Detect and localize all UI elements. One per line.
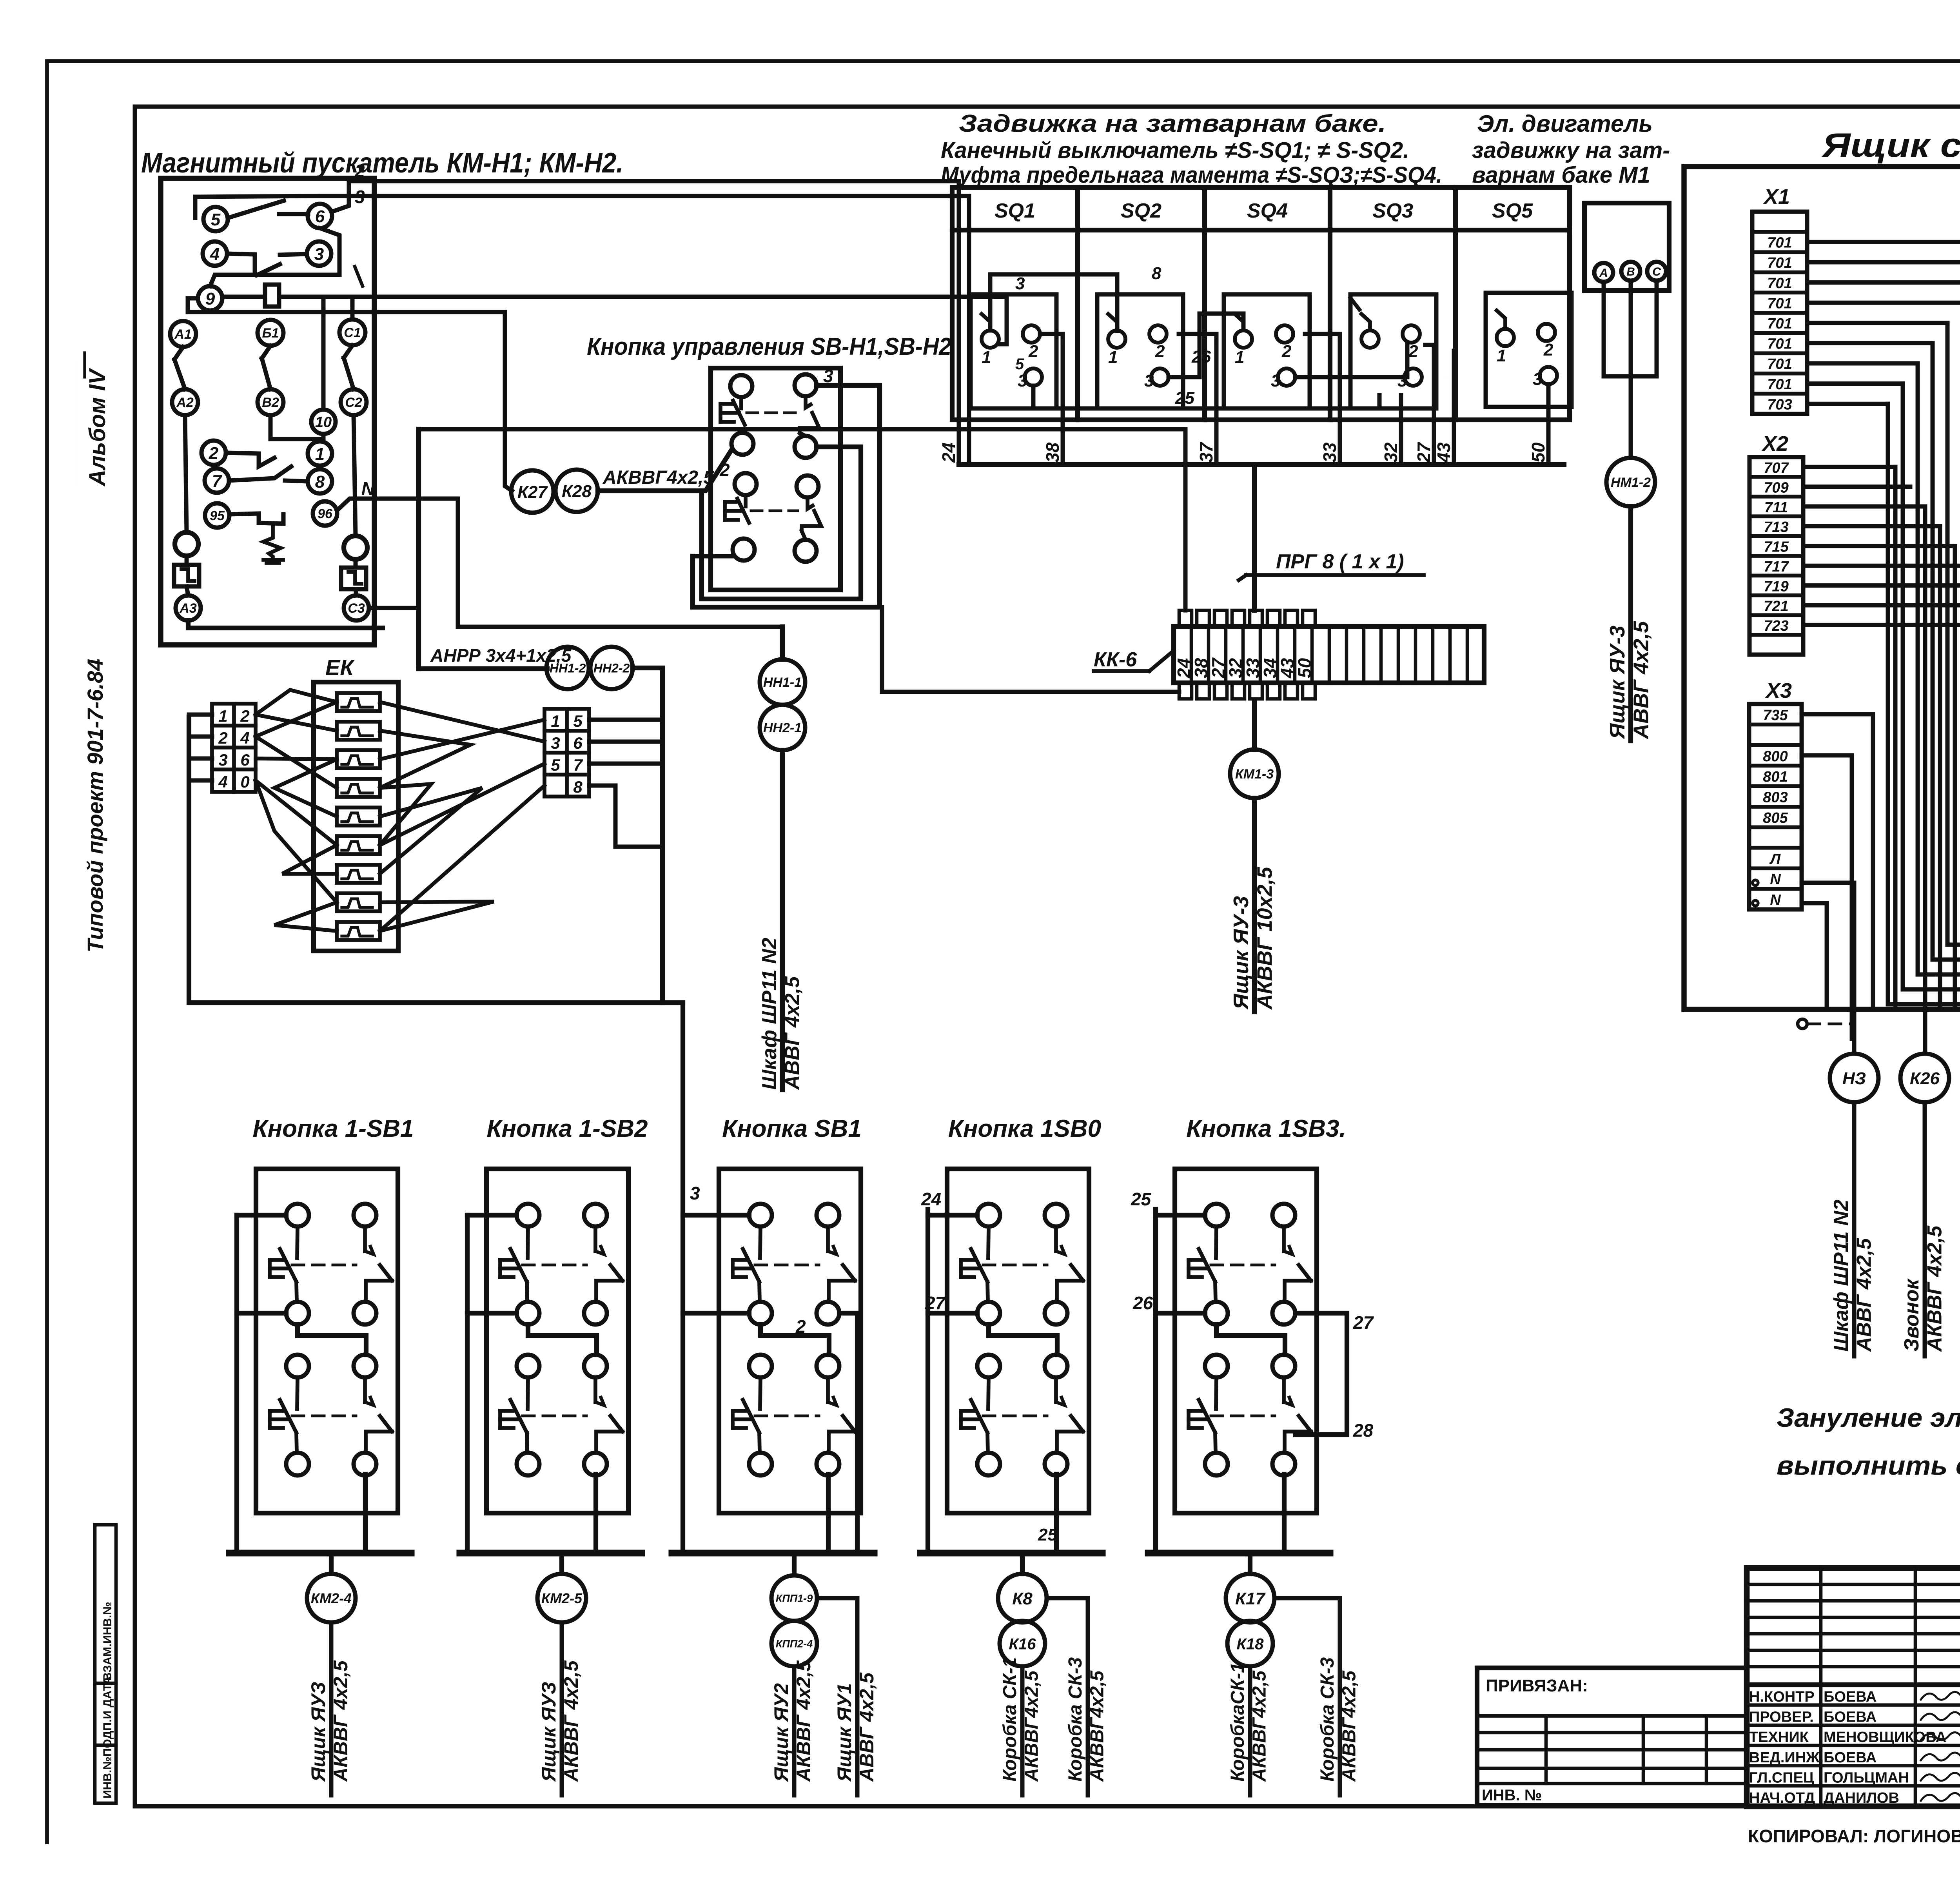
svg-text:ИНВ.№ПОДП.И ДАТА: ИНВ.№ПОДП.И ДАТА [101, 1676, 114, 1798]
btnU lower group terminal 1b [735, 473, 757, 495]
svg-text:9: 9 [205, 289, 215, 308]
contact terminal 6 [308, 204, 332, 228]
wire to K27 cable [188, 310, 512, 491]
cable marker НН1-1 [760, 659, 805, 705]
wire НН down to ШР11 cabinet [780, 750, 785, 1090]
svg-text:37: 37 [1196, 441, 1216, 463]
svg-text:28: 28 [1353, 1420, 1374, 1441]
svg-text:К17: К17 [1235, 1589, 1266, 1608]
cable marker КМ1-3 [1230, 749, 1279, 798]
contact terminal 3 [307, 241, 331, 266]
title block lower section line [1747, 1682, 1960, 1687]
X2 terminal strip [1749, 457, 1803, 655]
svg-text:X2: X2 [1761, 432, 1788, 455]
svg-text:КМ2-5: КМ2-5 [541, 1590, 583, 1606]
wire 1-10 link [318, 439, 322, 441]
1-SB2 left bus [467, 1213, 517, 1218]
EK heater elements [337, 693, 380, 711]
svg-text:Звонок: Звонок [1900, 1278, 1923, 1352]
motor terminals A B C [1594, 263, 1613, 282]
EK left terminal block [212, 704, 256, 792]
svg-text:95: 95 [210, 508, 225, 523]
cable marker К18 [1227, 1621, 1273, 1666]
svg-text:АКВВГ4х2,5: АКВВГ4х2,5 [1087, 1670, 1107, 1782]
SB1 bottom right drop [826, 1474, 831, 1553]
wire btn bottom bus to НН1-1 [780, 627, 785, 659]
svg-text:КоробкаСК-1: КоробкаСК-1 [1227, 1662, 1248, 1782]
svg-text:24: 24 [921, 1189, 941, 1209]
svg-text:ПРИВЯЗАН:: ПРИВЯЗАН: [1486, 1676, 1588, 1695]
svg-text:2: 2 [354, 161, 365, 181]
svg-text:SQ1: SQ1 [995, 200, 1035, 222]
svg-text:701: 701 [1767, 316, 1792, 332]
EK left bus taps [189, 713, 212, 717]
svg-text:SQ4: SQ4 [1247, 200, 1288, 222]
К8 right wire [1047, 1598, 1088, 1795]
wire KM1-3 down [1252, 798, 1257, 1012]
PRG8 cable drop [1252, 465, 1257, 610]
svg-text:26: 26 [1132, 1293, 1153, 1313]
1-SB1 bottom right drop [363, 1474, 368, 1553]
phase contact Б1-В2 [258, 320, 283, 346]
title block frame [1747, 1568, 1960, 1806]
svg-text:КМ2-4: КМ2-4 [311, 1590, 352, 1606]
svg-text:27: 27 [1414, 441, 1434, 463]
svg-text:N: N [361, 478, 375, 499]
svg-text:701: 701 [1767, 295, 1792, 312]
phase contact C1-C2 [339, 319, 365, 345]
btnU blade top [806, 396, 811, 408]
starter bottom bus [188, 621, 383, 628]
wire 25 from SQ1.3 [1033, 386, 1379, 408]
svg-text:Эл. двигатель: Эл. двигатель [1477, 111, 1653, 137]
svg-text:Кнопка 1SВ3.: Кнопка 1SВ3. [1186, 1115, 1346, 1142]
svg-text:801: 801 [1763, 769, 1788, 785]
svg-text:Кнопка 1SВ0: Кнопка 1SВ0 [948, 1115, 1101, 1142]
contact terminal 5 [203, 207, 228, 231]
svg-text:ВЕД.ИНЖ.: ВЕД.ИНЖ. [1749, 1749, 1824, 1766]
svg-text:26: 26 [1191, 347, 1211, 367]
svg-text:3: 3 [1271, 371, 1280, 390]
KK-6 strip body [1174, 626, 1484, 683]
fuse holder A3 [174, 565, 199, 586]
contact terminal 7 [205, 468, 229, 493]
svg-text:задвижку на зат-: задвижку на зат- [1472, 138, 1670, 163]
svg-text:Канечный выключатель ≠S-SQ1; ≠: Канечный выключатель ≠S-SQ1; ≠ S-SQ2. [941, 138, 1409, 163]
svg-text:713: 713 [1764, 519, 1788, 535]
svg-text:ДАНИЛОВ: ДАНИЛОВ [1824, 1790, 1899, 1806]
terminal 95 [205, 503, 229, 528]
svg-text:Шкаф ШР11 N2: Шкаф ШР11 N2 [758, 938, 781, 1090]
1SB3 right loop 27-28 [1296, 1313, 1347, 1435]
svg-text:711: 711 [1764, 499, 1788, 516]
svg-text:2: 2 [218, 729, 227, 747]
svg-text:КМ1-3: КМ1-3 [1235, 767, 1274, 782]
svg-text:ТЕХНИК: ТЕХНИК [1749, 1729, 1809, 1746]
cable marker НН2-2 [590, 647, 633, 689]
terminal 10 [311, 410, 336, 434]
contact terminal 8 [308, 469, 332, 494]
SB1 bottom bus [672, 1550, 874, 1556]
svg-text:КК-6: КК-6 [1094, 648, 1137, 671]
X1 wires to bundle [1807, 240, 1960, 244]
svg-text:38: 38 [1042, 442, 1063, 463]
SQ table frame [952, 187, 1570, 420]
svg-text:ГЛ.СПЕЦ: ГЛ.СПЕЦ [1749, 1769, 1814, 1786]
К18 drop wire and label [1248, 1666, 1252, 1795]
SB1 right wire 2 [839, 1313, 857, 1553]
svg-text:варнам баке М1: варнам баке М1 [1472, 162, 1650, 188]
wire 9 left join [188, 298, 198, 312]
svg-text:96: 96 [318, 506, 333, 521]
svg-text:В: В [1626, 265, 1635, 278]
svg-text:АКВВГ 4х2,5: АКВВГ 4х2,5 [560, 1660, 582, 1782]
wire 2 to SQ bus [332, 181, 959, 465]
svg-text:5: 5 [573, 712, 583, 730]
terminal 96 [313, 501, 337, 526]
svg-text:НАЧ.ОТД: НАЧ.ОТД [1749, 1790, 1815, 1806]
btnU blade bottom [808, 497, 813, 509]
svg-text:32: 32 [1381, 442, 1401, 463]
svg-text:Шкаф ШР11 N2: Шкаф ШР11 N2 [1830, 1199, 1853, 1352]
svg-text:707: 707 [1764, 460, 1789, 476]
cable marker КПП1-9 [771, 1575, 817, 1621]
X3 wire N to НЗ [1802, 883, 1854, 1054]
SQ bottom bus [959, 462, 1564, 467]
terminal C3 [344, 595, 369, 621]
btn loop outer [693, 385, 880, 607]
svg-text:В2: В2 [262, 395, 279, 410]
svg-text:С3: С3 [348, 601, 365, 616]
svg-text:1: 1 [551, 712, 560, 730]
svg-text:6: 6 [315, 207, 325, 226]
underline of IV [83, 353, 86, 377]
svg-text:НН2-1: НН2-1 [763, 720, 802, 735]
1SB0 left bus [928, 1209, 977, 1215]
coil circle A-phase [175, 532, 198, 556]
button box 1-SB2 [486, 1169, 628, 1513]
svg-text:3: 3 [1397, 371, 1407, 390]
svg-text:Кнопка 1-SB1: Кнопка 1-SB1 [253, 1115, 414, 1142]
svg-text:Ящик ЯУЗ: Ящик ЯУЗ [538, 1682, 560, 1782]
signal box ЯС outline [1684, 167, 1960, 1009]
svg-text:33: 33 [1319, 442, 1340, 463]
svg-text:24: 24 [938, 443, 959, 463]
svg-text:А3: А3 [179, 601, 197, 616]
contact terminal 4 [203, 241, 227, 266]
svg-text:25: 25 [1175, 388, 1194, 408]
svg-text:КПП2-4: КПП2-4 [776, 1638, 813, 1650]
svg-text:Кнопка управления SВ-Н1,SВ-Н2: Кнопка управления SВ-Н1,SВ-Н2 [587, 333, 951, 360]
contact terminal 1 [308, 441, 332, 466]
svg-text:3: 3 [1015, 274, 1025, 293]
wire bottom teeth feed [882, 607, 1179, 692]
SB1 wire 3 from EK bus [681, 1003, 685, 1553]
svg-text:2: 2 [1408, 342, 1418, 361]
svg-text:6: 6 [240, 751, 250, 769]
svg-text:К18: К18 [1236, 1635, 1264, 1653]
cable marker K27 [511, 470, 554, 513]
svg-text:4: 4 [218, 773, 227, 791]
EK box [314, 682, 398, 951]
svg-text:2: 2 [1028, 342, 1038, 361]
cable marker НН2-1 [760, 705, 805, 750]
svg-text:701: 701 [1767, 275, 1792, 292]
svg-text:803: 803 [1763, 789, 1788, 806]
wire K28 to button box [598, 450, 731, 491]
svg-text:БОЕВА: БОЕВА [1824, 1709, 1877, 1726]
stub wires SQ to drops [1040, 334, 1063, 341]
ground symbol [1798, 1019, 1807, 1029]
svg-text:АВВГ 4х2,5: АВВГ 4х2,5 [1629, 621, 1653, 740]
SQ2 contact box [1097, 294, 1183, 408]
svg-text:ВЗАМ.ИНВ.№: ВЗАМ.ИНВ.№ [101, 1602, 114, 1681]
X3 terminal strip [1749, 704, 1802, 909]
svg-text:АКВВГ4х2,5: АКВВГ4х2,5 [1339, 1670, 1359, 1782]
motor terminal box M1 [1584, 203, 1669, 290]
svg-text:2: 2 [1281, 342, 1292, 361]
svg-text:Ящик ЯУ2: Ящик ЯУ2 [770, 1683, 792, 1782]
svg-text:А2: А2 [176, 395, 194, 410]
svg-text:С1: С1 [344, 325, 361, 340]
btnU dashed link top [747, 412, 796, 414]
contact blade 2-1 [226, 453, 274, 466]
SQ5 contact box [1486, 293, 1572, 407]
svg-text:Ящик ЯУ-3: Ящик ЯУ-3 [1606, 626, 1629, 740]
1SB3 bottom bus [1148, 1550, 1330, 1556]
svg-text:7: 7 [212, 472, 223, 491]
svg-text:Муфта предельнага мамента ≠S-S: Муфта предельнага мамента ≠S-SQЗ;≠S-SQ4. [941, 162, 1442, 188]
svg-text:50: 50 [1294, 658, 1315, 678]
SQ4 contact box [1224, 294, 1310, 408]
terminal A3 [176, 595, 201, 621]
svg-text:АКВВГ4х2,5: АКВВГ4х2,5 [1021, 1670, 1042, 1782]
svg-text:2: 2 [1543, 340, 1553, 359]
svg-text:1: 1 [1497, 346, 1506, 365]
svg-text:К16: К16 [1009, 1635, 1036, 1653]
svg-text:27: 27 [925, 1293, 946, 1313]
svg-text:25: 25 [1131, 1189, 1152, 1209]
К17 right wire [1274, 1598, 1340, 1795]
privyazan table [1477, 1668, 1747, 1805]
svg-text:А1: А1 [174, 327, 191, 342]
svg-text:ГОЛЬЦМАН: ГОЛЬЦМАН [1824, 1769, 1909, 1786]
button box SB1 [719, 1169, 861, 1513]
svg-text:БОЕВА: БОЕВА [1824, 1749, 1877, 1766]
svg-text:8: 8 [315, 472, 325, 492]
thermal heater symbol [263, 525, 281, 560]
button box 1SB3 [1175, 1169, 1317, 1513]
SQ1 contact box [971, 294, 1056, 408]
svg-text:МЕНОВЩИКОВА: МЕНОВЩИКОВА [1824, 1729, 1946, 1746]
svg-text:БОЕВА: БОЕВА [1824, 1689, 1877, 1705]
svg-text:SQ5: SQ5 [1492, 200, 1533, 222]
wire label 1 [355, 267, 363, 286]
svg-text:Ящик сигнализации ЯС.: Ящик сигнализации ЯС. [1822, 127, 1960, 164]
1SB3 bottom right drop [1282, 1474, 1287, 1553]
wire from 6 down to contact row [210, 228, 339, 286]
svg-text:701: 701 [1767, 376, 1792, 393]
svg-text:721: 721 [1764, 598, 1788, 615]
SQ5 blade [1497, 310, 1505, 329]
cable marker НЗ [1830, 1054, 1878, 1102]
drop wires with labels under ЯС [1852, 1102, 1857, 1356]
SQ3 tick [1350, 298, 1359, 310]
svg-text:АВВГ 4х2,5: АВВГ 4х2,5 [856, 1672, 878, 1782]
svg-text:ИНВ. №: ИНВ. № [1482, 1787, 1542, 1804]
contact 5-6 bracket wire [195, 196, 320, 218]
svg-text:НН1-2: НН1-2 [550, 661, 586, 675]
svg-text:2: 2 [1155, 342, 1165, 361]
svg-text:5: 5 [1015, 356, 1024, 373]
svg-text:0: 0 [240, 773, 249, 791]
svg-text:Ящик ЯУЗ: Ящик ЯУЗ [307, 1682, 329, 1782]
svg-text:Кнопка 1-SB2: Кнопка 1-SB2 [487, 1115, 648, 1142]
svg-text:709: 709 [1764, 479, 1788, 496]
button box 1-SB1 [256, 1169, 398, 1513]
wire НН2-2 to EK loop [189, 668, 662, 1003]
vertical junction x1068 [416, 429, 421, 669]
svg-text:719: 719 [1764, 578, 1788, 595]
svg-text:SQ2: SQ2 [1121, 200, 1161, 222]
SQ3 contact box [1350, 294, 1436, 408]
cable marker КМ2-5 [537, 1574, 586, 1622]
wire into btn 2b [693, 554, 733, 559]
btn loop inner [702, 447, 861, 599]
KK-6 cell dividers and numbers [1190, 626, 1193, 683]
svg-text:АКВВГ4х2,5: АКВВГ4х2,5 [1249, 1670, 1270, 1782]
svg-text:Магнитный пускатель КМ-Н1; К: Магнитный пускатель КМ-Н1; КМ-Н2. [141, 147, 623, 179]
cable marker К16 [1000, 1621, 1045, 1666]
svg-text:703: 703 [1767, 396, 1792, 413]
wire SQ2.3 to SQ4.1 [1169, 314, 1243, 377]
cable marker K28 [555, 470, 598, 512]
cable marker НН1-2 [546, 647, 589, 689]
1-SB2 bottom right drop [593, 1474, 598, 1553]
svg-text:Коробка СК-3: Коробка СК-3 [1065, 1657, 1086, 1782]
thermal element wire 95-96 [229, 514, 283, 524]
svg-text:1: 1 [1235, 348, 1244, 367]
btnU plunger top [739, 397, 743, 408]
left margin bottom stamp column [95, 1525, 116, 1803]
btnU terminal 4b [795, 540, 817, 562]
svg-text:АКВВГ4х2,5: АКВВГ4х2,5 [603, 467, 714, 488]
svg-text:723: 723 [1764, 618, 1788, 634]
wire KK-6 to KM1-3 [1252, 700, 1257, 749]
btnU terminal 2b [733, 539, 755, 561]
svg-text:2: 2 [719, 460, 730, 480]
svg-text:715: 715 [1764, 539, 1789, 555]
SQ1 bracket wire to SQ2 [990, 274, 1117, 331]
svg-text:АКВВГ 10х2,5: АКВВГ 10х2,5 [1253, 867, 1276, 1010]
wire АНРР [419, 666, 547, 671]
svg-text:43: 43 [1434, 442, 1454, 463]
svg-text:3: 3 [1533, 370, 1542, 389]
svg-text:5: 5 [551, 756, 560, 774]
phase contact A1-A2 [170, 321, 196, 347]
svg-text:805: 805 [1763, 810, 1788, 826]
btnU dashed link bottom [751, 510, 798, 512]
KK-6 strip bottom teeth [1179, 683, 1192, 699]
svg-text:717: 717 [1764, 559, 1789, 575]
svg-text:КОПИРОВАЛ: ЛОГИНОВА: КОПИРОВАЛ: ЛОГИНОВА [1748, 1826, 1960, 1846]
wire НМ1-2 down [1628, 506, 1633, 741]
signature squiggles [1921, 1692, 1960, 1700]
svg-text:Ящик ЯУ1: Ящик ЯУ1 [833, 1683, 855, 1782]
contact terminal 9 [198, 286, 222, 310]
svg-text:8: 8 [1152, 264, 1161, 283]
1-SB1 bottom bus [229, 1550, 411, 1556]
btnU terminal 1a [730, 375, 752, 397]
svg-text:4: 4 [240, 729, 249, 747]
КПП1-9 right wire to ЯУ1 [817, 1598, 857, 1795]
svg-text:С2: С2 [345, 395, 362, 410]
svg-text:3: 3 [218, 751, 227, 769]
svg-text:735: 735 [1763, 707, 1788, 724]
btnU terminal 2a [731, 433, 753, 455]
wire C3 to ANRR cable [369, 606, 419, 610]
svg-text:Н.КОНТР: Н.КОНТР [1749, 1689, 1815, 1705]
X3 N terminal dots [1753, 880, 1758, 885]
svg-text:Коробка СК-3: Коробка СК-3 [1317, 1657, 1338, 1782]
svg-text:SQ3: SQ3 [1372, 200, 1413, 222]
svg-text:3: 3 [1018, 371, 1027, 390]
btnU plunger bottom [744, 495, 748, 506]
svg-text:1: 1 [315, 445, 325, 464]
svg-text:3: 3 [355, 187, 365, 207]
svg-text:АВВГ 4х2,5: АВВГ 4х2,5 [781, 976, 804, 1091]
EK right terminal block [544, 709, 589, 797]
svg-text:Зануление электрооборудования: Зануление электрооборудования [1777, 1403, 1960, 1433]
starter box [161, 178, 374, 645]
EK weave wires [256, 715, 337, 731]
wire 10 loop to contact 2-1 [270, 415, 323, 439]
svg-text:27: 27 [1353, 1312, 1374, 1333]
svg-text:3: 3 [690, 1183, 700, 1203]
svg-text:Б1: Б1 [262, 326, 279, 341]
svg-text:АКВВГ 4х2,5: АКВВГ 4х2,5 [330, 1660, 352, 1782]
svg-text:701: 701 [1767, 336, 1792, 352]
wire to KK strip top [419, 429, 1185, 610]
svg-text:1: 1 [1108, 348, 1118, 367]
X2 wires to bundle [1803, 465, 1895, 469]
svg-text:НН2-2: НН2-2 [593, 661, 630, 675]
svg-text:X3: X3 [1765, 679, 1792, 702]
svg-text:ЕК: ЕК [325, 655, 355, 680]
title block top mini table [1747, 1583, 1960, 1586]
fuse holder C3 [341, 568, 366, 589]
svg-text:1: 1 [218, 707, 227, 725]
1SB3 left bus [1156, 1209, 1205, 1215]
motor wires to cable [1604, 282, 1631, 376]
1-SB2 bottom bus [460, 1550, 642, 1556]
svg-text:Коробка СК-1: Коробка СК-1 [1000, 1657, 1020, 1782]
svg-text:Кнопка SВ1: Кнопка SВ1 [722, 1115, 862, 1142]
svg-text:701: 701 [1767, 235, 1792, 251]
cable marker НМ1-2 [1606, 458, 1655, 506]
btnU lower group terminal 3b [797, 475, 818, 497]
svg-text:7: 7 [573, 756, 583, 774]
svg-text:1: 1 [982, 348, 991, 367]
svg-text:НН1-1: НН1-1 [763, 675, 802, 690]
svg-text:701: 701 [1767, 255, 1792, 271]
wire N from 96 [337, 499, 782, 627]
svg-text:2: 2 [209, 444, 219, 463]
svg-text:N: N [1770, 892, 1781, 909]
svg-text:4: 4 [210, 245, 220, 264]
svg-text:К28: К28 [562, 482, 592, 501]
svg-text:Задвижка на затварнам баке.: Задвижка на затварнам баке. [959, 110, 1386, 137]
